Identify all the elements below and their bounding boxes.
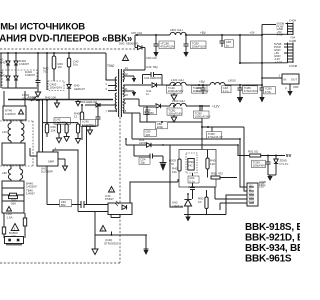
cap TC803 with ground xyxy=(237,85,243,103)
regulator U801 box xyxy=(282,74,299,84)
label C48 boxed xyxy=(225,40,234,48)
ground sec pin10 xyxy=(132,91,136,97)
transformer core bars xyxy=(119,69,122,117)
warning triangle NT40 xyxy=(19,110,24,115)
svg-text:12: 12 xyxy=(125,72,129,76)
svg-text:U80: U80 xyxy=(293,85,299,89)
cap C04 xyxy=(134,145,167,171)
label C808 xyxy=(144,130,157,137)
warning triangle fuse xyxy=(7,207,12,212)
svg-text:47uF/400V: 47uF/400V xyxy=(28,98,42,102)
bulk capacitor FC40 47uF/400V xyxy=(35,88,40,97)
svg-text:+12V: +12V xyxy=(212,105,220,109)
svg-text:STRG6353: STRG6353 xyxy=(104,242,119,246)
opto LED symbol xyxy=(115,201,127,210)
U41 top right pin wire xyxy=(53,150,78,153)
AC plug box xyxy=(5,237,24,245)
svg-text:C80 10n: C80 10n xyxy=(146,56,157,60)
svg-text:1M: 1M xyxy=(58,65,63,69)
svg-text:R90: R90 xyxy=(211,172,217,176)
feedback rail 1 y139 xyxy=(132,138,240,140)
capacitor C401 xyxy=(67,53,70,67)
svg-text:L801 6uH: L801 6uH xyxy=(170,28,183,32)
wire: bridge bottom bus xyxy=(2,87,37,89)
svg-text:BBK-918S, BBK: BBK-918S, BBK xyxy=(245,222,300,233)
CON2 pin labels xyxy=(249,185,255,204)
bottom mid rail xyxy=(95,212,147,236)
wire sec pin14 up to 5V rectifier xyxy=(134,35,136,48)
resistor R405 with ground xyxy=(64,123,69,142)
inductor L801 xyxy=(170,32,186,35)
choke L40 left winding xyxy=(8,123,11,141)
startup resistor R401 xyxy=(45,100,48,138)
diode D401 (left edge, cut) xyxy=(0,53,2,88)
wire y145 branch xyxy=(126,139,238,145)
svg-text:АНИЯ DVD-ПЛЕЕРОВ «ВВК»: АНИЯ DVD-ПЛЕЕРОВ «ВВК» xyxy=(0,33,132,44)
resistor R406 xyxy=(80,105,83,126)
boundary dashed vertical isolation line xyxy=(119,117,121,263)
diode D406 row2 b xyxy=(14,76,18,80)
label TC804 xyxy=(191,41,207,49)
diode D901 xyxy=(147,143,152,147)
svg-text:+5V: +5V xyxy=(200,31,207,35)
warning triangle NTC xyxy=(11,224,19,232)
U90 outer box xyxy=(179,150,216,188)
CON8 pin labels xyxy=(274,42,282,64)
svg-text:10u: 10u xyxy=(73,63,78,67)
opto right pin step wire xyxy=(130,179,178,203)
svg-text:1N4007: 1N4007 xyxy=(19,62,30,66)
label TC803 xyxy=(243,86,258,93)
diode D80 rectifier xyxy=(135,45,145,70)
svg-text:1/4097: 1/4097 xyxy=(26,192,35,196)
wire aux rail from pin8 xyxy=(132,113,146,122)
svg-text:1u: 1u xyxy=(226,43,230,47)
svg-text:5V: 5V xyxy=(286,153,291,158)
svg-text:1000uF/16V: 1000uF/16V xyxy=(195,114,211,118)
svg-text:C49: C49 xyxy=(146,65,152,69)
thick bus into opto xyxy=(47,201,108,212)
transformer primary winding upper xyxy=(115,77,117,90)
resistor R402 10K xyxy=(52,53,56,81)
label C40 682 boxed xyxy=(60,200,72,207)
label C403 boxed xyxy=(81,120,96,127)
cap C904 xyxy=(190,173,195,199)
ground sec pin12 xyxy=(132,76,136,83)
svg-text:75K: 75K xyxy=(43,70,48,74)
resistor R407 xyxy=(75,123,80,144)
svg-text:BBK-921D, BBK: BBK-921D, BBK xyxy=(245,233,300,244)
U41 pin wires left xyxy=(30,148,37,156)
svg-text:1N4007: 1N4007 xyxy=(25,73,36,77)
cap TC806 xyxy=(167,106,182,122)
CON4 pin labels xyxy=(277,22,284,37)
opto U40 box xyxy=(108,203,132,215)
svg-text:!: ! xyxy=(111,189,112,193)
primary pin stubs xyxy=(108,80,117,111)
transformer secondary winding 3 xyxy=(123,99,124,113)
svg-text:470u: 470u xyxy=(265,90,272,94)
opto bottom wires xyxy=(111,215,120,218)
svg-text:L80: L80 xyxy=(2,171,7,175)
svg-text:100uF/10V: 100uF/10V xyxy=(192,45,206,49)
ground triangle mid (open) xyxy=(55,100,60,108)
svg-text:T940: T940 xyxy=(107,64,114,68)
wire cluster top xyxy=(43,122,79,124)
label TC805 xyxy=(159,41,175,49)
svg-text:C408: C408 xyxy=(289,39,296,43)
svg-text:0.1u: 0.1u xyxy=(189,179,195,183)
diode D404 xyxy=(14,53,18,88)
svg-text:SMP: SMP xyxy=(48,160,54,164)
svg-text:HER107: HER107 xyxy=(74,87,85,91)
resistor R902 470 on wire xyxy=(211,176,237,179)
CON4 wires xyxy=(262,24,288,36)
box NT40 xyxy=(3,106,26,120)
svg-text:LM431A: LM431A xyxy=(172,204,183,208)
aux rail 2 y127 xyxy=(202,126,244,128)
cap TC901 on aux rail xyxy=(207,127,222,139)
svg-text:220R: 220R xyxy=(139,141,146,145)
svg-text:GND: GND xyxy=(249,193,255,196)
svg-text:CON8: CON8 xyxy=(289,64,297,68)
svg-text:IN: IN xyxy=(284,78,287,82)
svg-text:11: 11 xyxy=(125,87,128,91)
wire join snubber bottom xyxy=(82,126,98,205)
choke L40 right winding xyxy=(21,123,24,141)
svg-text:12V: 12V xyxy=(249,185,254,188)
svg-text:POW: POW xyxy=(249,201,255,204)
diode D405 row2 a xyxy=(6,76,10,80)
dashed corner at choke xyxy=(0,121,33,166)
resistor R906 xyxy=(188,190,226,215)
cap C48 branch xyxy=(220,35,225,47)
resistor R91 xyxy=(250,154,285,157)
svg-text:GND: GND xyxy=(249,197,255,200)
capacitor C48b boxed label xyxy=(222,85,232,93)
vertical x82 down xyxy=(81,126,83,140)
IC U41 box xyxy=(37,152,58,166)
svg-text:D 5.1V: D 5.1V xyxy=(280,162,289,166)
U90 inner dashed box xyxy=(186,153,197,173)
long vertical to opto bus xyxy=(77,150,79,212)
cap TC404 with ground xyxy=(167,85,183,100)
svg-text:L8010: L8010 xyxy=(228,79,236,83)
svg-text:470uF/10V: 470uF/10V xyxy=(160,45,174,49)
wire 5V rail to label xyxy=(186,84,210,86)
fuse F80 xyxy=(2,213,5,238)
svg-text:10K: 10K xyxy=(51,129,56,133)
diode D407 xyxy=(67,67,71,100)
choke L40 tails xyxy=(11,141,21,181)
resistor R904 xyxy=(206,150,209,178)
label C04 10p xyxy=(139,157,150,164)
svg-text:+5V: +5V xyxy=(250,30,255,34)
svg-text:1/4250V: 1/4250V xyxy=(5,112,16,116)
stub above label xyxy=(111,232,113,236)
snubber cap C49 across sec xyxy=(143,72,163,85)
diode D403 xyxy=(6,53,10,88)
box2 filter xyxy=(2,143,25,165)
connector CON4 top xyxy=(288,23,294,36)
cap TC802 with ground xyxy=(259,85,264,103)
svg-text:56p: 56p xyxy=(153,65,158,69)
horizontal link y63 xyxy=(240,62,288,64)
secondary pin stubs xyxy=(123,70,145,113)
label TC802 xyxy=(264,87,276,94)
TL431 U91 xyxy=(184,194,191,215)
cap TC805 with ground xyxy=(153,35,158,57)
svg-text:МЫ ИСТОЧНИКОВ: МЫ ИСТОЧНИКОВ xyxy=(0,22,85,33)
transformer secondary winding 1 xyxy=(123,71,124,82)
diagonal tick xyxy=(31,96,37,101)
svg-text:220p: 220p xyxy=(157,125,164,129)
transformer primary winding lower xyxy=(115,93,117,112)
svg-text:OUT: OUT xyxy=(291,78,297,82)
vertical bus x240 xyxy=(239,35,241,63)
svg-text:PS817: PS817 xyxy=(105,197,114,201)
choke L80 right winding xyxy=(20,169,23,179)
capacitor C808 bars xyxy=(145,106,150,122)
warning triangle opto xyxy=(109,187,115,193)
vertical bus x262 xyxy=(261,25,263,64)
output rail to 5V right xyxy=(238,145,249,156)
svg-text:10k: 10k xyxy=(172,170,177,174)
zener ZD903 xyxy=(274,156,278,176)
U41 right pin to ground xyxy=(58,159,68,171)
warning triangle near transformer xyxy=(123,55,129,61)
svg-text:BBK-934, BBK-9: BBK-934, BBK-9 xyxy=(245,243,300,254)
IC U41 area: feed wires xyxy=(39,100,43,153)
wire: drop to transformer pin 2 xyxy=(106,53,113,80)
dashed box C405 snubber xyxy=(48,81,64,91)
svg-text:0.1u: 0.1u xyxy=(196,89,202,93)
rectifier D409 on pin11 xyxy=(132,83,170,87)
cap TC807 xyxy=(194,106,210,118)
svg-text:150: 150 xyxy=(259,185,264,189)
wire branch x47 xyxy=(46,53,48,90)
secondary aux rail y122 xyxy=(146,121,202,123)
U801 ground xyxy=(287,84,292,96)
inductor L401 on 5V rail xyxy=(170,82,186,85)
wire: AC top rail xyxy=(0,52,106,54)
svg-text:56K: 56K xyxy=(11,202,16,206)
svg-text:100uF/6V: 100uF/6V xyxy=(253,164,266,168)
svg-text:47K: 47K xyxy=(169,162,174,166)
wire TL431 top link xyxy=(188,187,215,197)
vertical feed x202 to U90 xyxy=(201,106,203,150)
svg-text:BBK-961S: BBK-961S xyxy=(245,253,292,264)
svg-text:L802 3uH: L802 3uH xyxy=(172,99,185,103)
svg-text:1K: 1K xyxy=(198,200,202,204)
svg-text:C404: C404 xyxy=(289,19,296,23)
svg-text:+12V: +12V xyxy=(275,60,282,64)
svg-text:470uF/16V: 470uF/16V xyxy=(244,89,258,93)
cap TC804 with ground xyxy=(183,35,188,57)
transformer secondary winding 2 xyxy=(123,85,124,97)
svg-text:100uF/16V: 100uF/16V xyxy=(168,111,182,115)
resistor R903 on left edge xyxy=(178,159,181,171)
svg-text:!: ! xyxy=(102,228,103,232)
capacitor C402 branch xyxy=(36,53,41,88)
ground bar under 5V branch xyxy=(267,175,276,181)
box3 input filter xyxy=(2,181,24,213)
vertical x163 down xyxy=(170,145,183,207)
NTC xyxy=(23,213,26,238)
svg-text:103: 103 xyxy=(145,133,150,137)
connector CON8 xyxy=(288,43,294,64)
label D803 SR360 xyxy=(144,108,157,116)
label C904 xyxy=(188,176,199,183)
choke L80 xyxy=(11,165,20,169)
label C407 boxed xyxy=(54,117,71,124)
svg-text:10p: 10p xyxy=(140,161,145,165)
+12V rectifier D803 xyxy=(132,99,170,108)
cap C803 left of rail xyxy=(201,85,206,94)
warning triangle bottom xyxy=(100,226,106,232)
inductor L8010 rail xyxy=(225,78,262,85)
svg-text:1n: 1n xyxy=(146,92,150,96)
dashed box around bridge xyxy=(2,70,37,88)
svg-text:1.1u: 1.1u xyxy=(223,89,229,93)
capacitor C403 xyxy=(96,105,101,126)
svg-text:+5V: +5V xyxy=(199,80,206,84)
svg-text:C04: C04 xyxy=(144,76,150,80)
wire from sec pin8 down xyxy=(131,113,133,139)
cap C407 + resistor cluster xyxy=(56,123,61,143)
CON2 bottom connector xyxy=(247,183,258,206)
cap TC808 on aux rail1 xyxy=(156,122,168,129)
svg-text:D60 HER102: D60 HER102 xyxy=(80,100,97,104)
svg-text:100n/1KV: 100n/1KV xyxy=(50,86,63,90)
+5V top rail xyxy=(135,34,262,36)
svg-text:470: 470 xyxy=(218,172,223,176)
svg-text:R91 0Ω: R91 0Ω xyxy=(248,150,259,154)
U801 in wire xyxy=(262,63,282,78)
choke L40 xyxy=(11,120,21,123)
left column: caps label FC xyxy=(4,91,25,106)
diode D60 HER102 to pin1 xyxy=(85,103,117,107)
cap TC902 xyxy=(266,156,271,176)
svg-text:12: 12 xyxy=(74,115,78,119)
inductor L802 xyxy=(170,103,186,106)
svg-text:HC: HC xyxy=(189,164,193,168)
svg-text:5V: 5V xyxy=(249,189,252,192)
boundary dashed bottom line xyxy=(0,262,120,264)
svg-text:10: 10 xyxy=(125,93,129,97)
ground under snubber (open) xyxy=(88,126,93,135)
svg-text:L401 3uH: L401 3uH xyxy=(171,78,184,82)
svg-text:1.5A: 1.5A xyxy=(7,216,13,220)
svg-text:!: ! xyxy=(125,57,126,61)
svg-text:682: 682 xyxy=(61,203,66,207)
wire: HV+ bus xyxy=(8,99,113,101)
boundary dashed top line xyxy=(0,48,137,50)
ground stub near R406 xyxy=(76,100,80,106)
svg-text:L40: L40 xyxy=(2,130,7,134)
ground U91 xyxy=(184,215,192,222)
choke L80 left winding xyxy=(8,169,11,179)
label TC902 xyxy=(252,160,266,167)
CON8 wires xyxy=(284,44,288,53)
CON2 wires xyxy=(215,127,247,215)
svg-text:1000uF/10V: 1000uF/10V xyxy=(168,89,184,93)
svg-text:14: 14 xyxy=(125,66,129,70)
svg-text:12K: 12K xyxy=(210,162,215,166)
cap TC405 with ground xyxy=(192,85,208,93)
ground right (arrow) xyxy=(144,235,149,255)
svg-text:HER304: HER304 xyxy=(150,76,161,80)
ground left (open) xyxy=(92,235,98,255)
U90 inner IC xyxy=(188,159,194,171)
U41 bottom pin drop xyxy=(46,166,48,205)
